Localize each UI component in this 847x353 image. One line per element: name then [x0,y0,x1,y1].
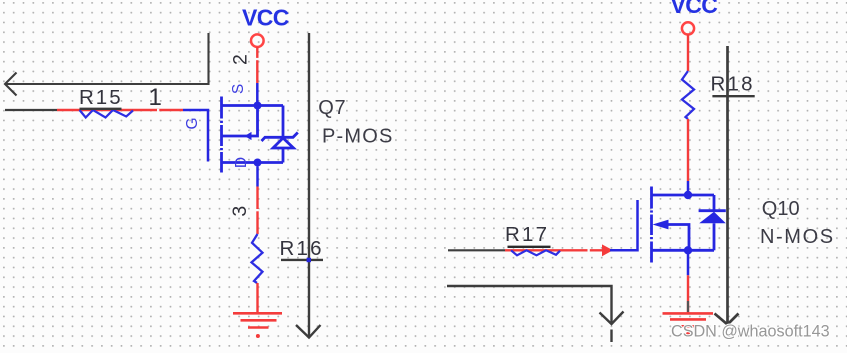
svg-text:CSDN @whaosoft143: CSDN @whaosoft143 [671,323,830,341]
svg-text:Q7: Q7 [318,97,346,119]
svg-text:R16: R16 [280,237,324,260]
svg-text:2: 2 [230,54,252,65]
svg-text:VCC: VCC [242,5,289,31]
svg-text:VCC: VCC [671,0,718,18]
svg-text:1: 1 [149,84,162,111]
svg-text:Q10: Q10 [762,198,800,220]
svg-text:N-MOS: N-MOS [760,226,835,248]
svg-text:R15: R15 [79,86,123,109]
svg-text:G: G [184,117,201,129]
svg-text:D: D [233,157,250,168]
svg-text:R18: R18 [711,73,755,96]
svg-text:3: 3 [229,206,251,217]
svg-text:P-MOS: P-MOS [322,126,394,148]
svg-text:R17: R17 [505,223,549,246]
svg-text:S: S [230,84,247,94]
